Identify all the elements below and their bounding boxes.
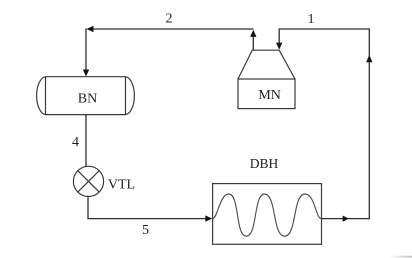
arrowhead pointing up at MN outlet [250,30,256,37]
arrowhead pointing down at MN inlet [276,43,282,50]
svg-text:5: 5 [142,223,149,238]
wire 2: horizontal run from MN outlet to corner above BN [88,28,254,30]
arrowhead pointing down into BN [83,70,89,77]
wire: DBH outlet to bottom-right corner [322,218,370,220]
svg-text:BN: BN [78,91,97,106]
svg-text:DBH: DBH [250,156,279,171]
svg-text:1: 1 [308,12,315,27]
vessel BN: horizontal cylinder body [37,77,135,115]
valve VTL: circle with inscribed X [73,166,103,196]
compressor MN: rectangle body [238,79,295,109]
MN outlet stub wire [252,34,254,50]
heater coil wave inside DBH [213,194,322,236]
wire 4: BN bottom to valve VTL [85,115,87,167]
arrowhead pointing left at corner above BN [87,26,94,32]
svg-text:VTL: VTL [108,178,135,193]
wire 5: valve bottom, corner, run to DBH inlet [88,196,207,218]
wire 1: horizontal run from riser to MN inlet [279,28,370,30]
arrowhead pointing right on DBH outlet [343,216,349,222]
wire: vertical drop from corner into BN [85,28,87,71]
compressor MN: trapezoid hood [238,50,295,79]
svg-text:4: 4 [72,135,79,150]
svg-text:MN: MN [258,88,281,103]
riser wire: right side vertical up to line 1 [368,28,370,219]
decorative corner shadow artifact bottom-right [389,256,412,258]
svg-text:2: 2 [166,12,173,27]
heater DBH: rectangle body [213,184,322,245]
arrowhead pointing right into DBH [205,215,212,221]
arrowhead pointing up on riser [366,55,372,62]
MN inlet stub wire [278,28,280,44]
